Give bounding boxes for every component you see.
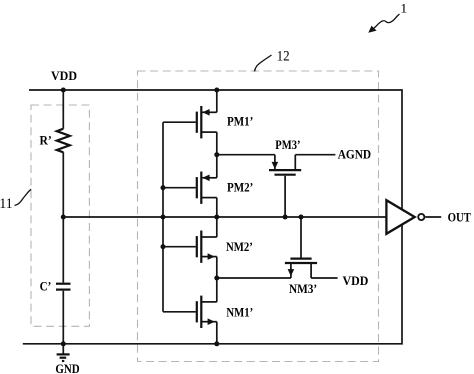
- svg-text:1: 1: [400, 0, 407, 15]
- svg-text:PM3’: PM3’: [275, 138, 300, 152]
- svg-text:NM2’: NM2’: [226, 240, 253, 254]
- svg-text:NM3’: NM3’: [289, 282, 317, 296]
- svg-text:12: 12: [277, 49, 290, 65]
- svg-text:C’: C’: [40, 279, 52, 293]
- svg-text:VDD: VDD: [51, 69, 77, 83]
- svg-text:PM1’: PM1’: [227, 115, 253, 129]
- svg-text:11: 11: [0, 196, 13, 212]
- svg-text:PM2’: PM2’: [227, 180, 253, 194]
- svg-text:GND: GND: [55, 362, 79, 374]
- svg-text:NM1’: NM1’: [226, 305, 253, 319]
- svg-text:R’: R’: [40, 133, 52, 147]
- svg-text:VDD: VDD: [343, 274, 369, 288]
- svg-text:AGND: AGND: [338, 148, 371, 162]
- svg-text:OUT: OUT: [448, 211, 472, 225]
